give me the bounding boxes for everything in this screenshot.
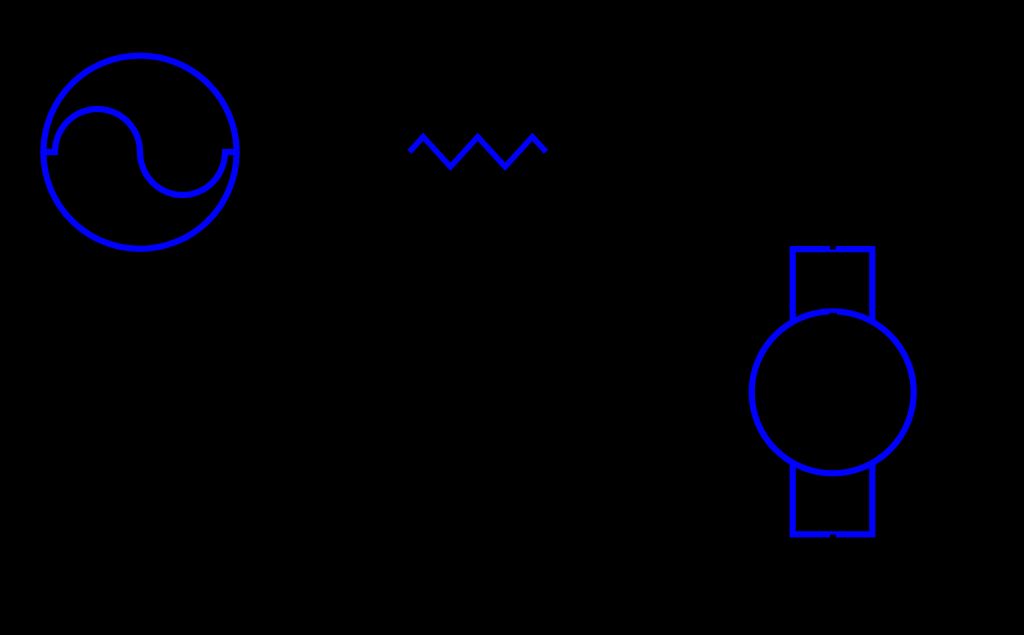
resistor R1 [410,137,547,167]
wire W4: motor bottom terminal down (black lead crossing notch) [830,535,836,539]
wire W3: corner down to motor top terminal (black lead end notch) [830,245,836,250]
wire W2: resistor to top-right corner [548,149,833,155]
ac source V1 [43,56,236,249]
wire W3 stub at motor circle top [829,313,837,316]
wire W1: source right lead to resistor [241,149,407,155]
ac source V1 sine [44,109,237,195]
motor M1 top brush [793,249,873,320]
motor M1 rotor circle [752,311,914,473]
wire W5: bottom return wire [140,579,833,585]
motor M1 [752,249,914,534]
motor M1 bottom brush [793,464,873,534]
ac source V1 circle [43,56,236,249]
wire W6: up to source bottom [137,252,143,582]
